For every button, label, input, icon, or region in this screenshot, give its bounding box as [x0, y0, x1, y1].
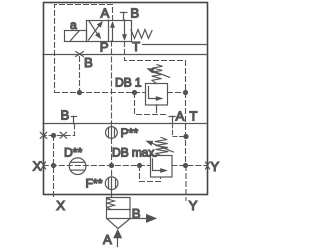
wire: dashed from P** down to channel and F**: [111, 138, 113, 177]
node junction at (134.6,92.7): [132, 90, 137, 95]
svg-text:X: X: [56, 198, 65, 213]
svg-text:B: B: [61, 108, 70, 123]
wire: X pilot dashed vertical x=53.3: [53, 135, 55, 199]
svg-text:DB 1: DB 1: [115, 76, 142, 90]
relief valve DBmax internal flow arrow: [153, 159, 169, 173]
node junction at (185.6,166): [183, 163, 188, 168]
solenoid a of valve V1: [65, 31, 87, 42]
wire: DB1 right port to T line: [167, 92, 185, 94]
orifice P**: [106, 127, 118, 139]
wire: DB1 pilot dashed line y=92.6: [55, 92, 146, 94]
svg-text:T: T: [189, 108, 197, 123]
relief valve DB1 internal flow arrow: [149, 87, 164, 101]
node junction at (53.3,135.4): [51, 133, 56, 138]
plugged port A stub on divider: [169, 116, 175, 123]
cartridge valve spring: [107, 197, 114, 209]
svg-text:T: T: [132, 39, 140, 54]
svg-text:DB max.: DB max.: [112, 145, 157, 159]
wire: dashed channel from plugged B to X row: [43, 124, 74, 136]
relief valve DBmax adjustable spring: [155, 137, 169, 155]
plug X at frame (43,135): [40, 132, 46, 138]
wire: section divider y=123: [43, 123, 206, 125]
manifold block outer frame: [44, 3, 208, 195]
node junction at (79.5,92.6): [77, 90, 82, 95]
svg-text:a: a: [70, 18, 77, 32]
relief valve DBmax adjustment arrow: [145, 141, 173, 152]
wire: P pilot dashed line down: [111, 41, 113, 127]
orifice D**: [69, 158, 86, 175]
wire: section divider y=44 right part: [143, 44, 207, 46]
wire: DB1 outlet stub: [156, 105, 158, 110]
svg-text:A: A: [103, 232, 112, 247]
svg-text:A: A: [101, 6, 110, 21]
wire: dashed from plugged B down to pilot line: [79, 57, 81, 93]
port B flow arrow: [130, 214, 157, 223]
svg-text:F**: F**: [86, 177, 103, 191]
svg-text:D**: D**: [64, 146, 83, 160]
valve V1 right position arrows: [110, 20, 127, 41]
svg-text:P**: P**: [121, 126, 139, 140]
svg-text:A: A: [176, 108, 185, 123]
cartridge valve poppet seat: [107, 219, 131, 229]
wire: pilot channel y=165.9 dashed: [43, 165, 206, 167]
svg-text:P: P: [100, 40, 109, 55]
valve V1 return spring: [131, 30, 152, 39]
relief valve DB1 body: [146, 84, 168, 106]
plug X at (63.4,135): [60, 132, 66, 138]
node junction at (111.7,166): [109, 163, 114, 168]
svg-text:B: B: [84, 55, 93, 70]
plugged port B of valve V1: [120, 12, 127, 20]
wire: from F** to cartridge: [111, 177, 113, 197]
svg-text:Y: Y: [189, 198, 198, 213]
directional valve V1 body: [87, 20, 132, 42]
wire: DB1 drain dashed path: [135, 93, 169, 115]
plugged port B on divider y=123: [71, 116, 76, 124]
plug X on section B port (divider y=54): [76, 52, 84, 57]
plug X port at left frame: [42, 162, 46, 169]
relief valve DB1 adjustment arrow: [146, 68, 169, 77]
valve V1 left position crossed arrows: [89, 21, 103, 40]
wire: dashed pilot line from valve port A up/left/down to DB1 pilot: [55, 5, 113, 93]
wire: T drain dashed line down and right: [125, 42, 186, 93]
wire: T drain dashed vertical x=185.4 continuing down: [185, 93, 187, 166]
node junction at (186.4,136.3): [183, 134, 188, 139]
cartridge valve body: [107, 198, 131, 219]
node junction at (139.3,166): [137, 163, 142, 168]
node junction at (53.3,165.9): [51, 163, 56, 168]
plug Y port at right frame: [206, 162, 210, 169]
wire: section divider y=54: [43, 54, 206, 56]
relief valve DB1 adjustable spring: [152, 65, 163, 84]
orifice F**: [105, 177, 118, 190]
wire: dashed branch below divider to T line: [173, 124, 185, 137]
port A flow arrow: [113, 229, 122, 247]
wire: DBmax drain dashed path below: [140, 166, 161, 182]
relief valve DBmax body: [151, 156, 173, 178]
svg-text:B: B: [130, 5, 139, 20]
node junction at (185.5,93): [183, 90, 188, 95]
svg-text:X: X: [33, 159, 42, 174]
svg-text:B: B: [132, 206, 141, 221]
svg-text:Y: Y: [210, 159, 219, 174]
